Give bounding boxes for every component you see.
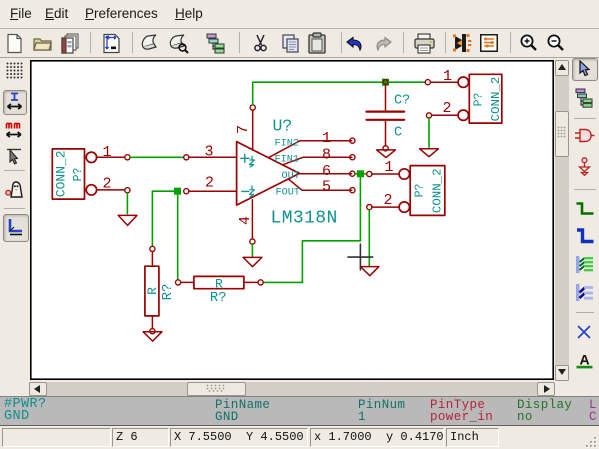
op-amp minus squiggle <box>249 186 254 197</box>
page settings icon <box>101 33 122 54</box>
zoom out icon <box>545 33 566 54</box>
svg-text:1: 1 <box>322 130 331 147</box>
wire: junction left <box>152 190 177 192</box>
message panel <box>0 396 599 426</box>
units mm icon <box>5 122 23 139</box>
svg-text:OUT: OUT <box>282 171 300 182</box>
print icon <box>413 33 436 54</box>
zoom in icon <box>518 33 539 54</box>
hierarchy sheets icon <box>575 88 595 108</box>
connector P1 (CONN_2, left) body <box>52 149 124 199</box>
svg-text:C: C <box>394 125 402 140</box>
open folder icon <box>32 33 53 54</box>
junction on op-amp pin2 net <box>174 188 181 195</box>
svg-text:2: 2 <box>205 175 214 192</box>
connector P2 pin-end circle (pin 1) <box>425 80 430 85</box>
wire: output node down <box>359 178 361 241</box>
ground symbol under resistor R1 <box>143 332 162 341</box>
hidden pins icon <box>5 181 24 199</box>
ground symbol under P2 pin2 <box>420 149 439 157</box>
svg-text:2: 2 <box>442 100 451 117</box>
menu bar <box>0 0 599 29</box>
orthogonal mode button (pressed) <box>3 214 29 242</box>
svg-text:FIN1: FIN1 <box>275 154 299 165</box>
add component tool icon <box>574 127 595 144</box>
ground symbol under op-amp pin 4 <box>243 257 262 266</box>
schematic canvas <box>30 60 554 380</box>
cvpcb icon <box>452 32 474 54</box>
op-amp pin 2 <box>189 190 237 192</box>
ground symbol under P1 pin2 <box>118 215 137 225</box>
resistor R1 (vertical) <box>145 246 159 334</box>
svg-text:2: 2 <box>383 192 392 209</box>
op-amp pin 5 (FOUT) <box>288 179 351 190</box>
op-amp pin 1 (FIN2) <box>269 141 352 158</box>
svg-text:P?: P? <box>473 93 486 107</box>
connector P1 pin-end circles <box>125 155 130 193</box>
wire: down to resistor R1 top <box>151 191 153 246</box>
copy icon <box>279 33 302 54</box>
svg-text:R?: R? <box>160 284 176 301</box>
op-amp pin 7 (V+) <box>252 110 254 150</box>
top toolbar <box>0 29 599 58</box>
svg-text:R: R <box>145 287 160 295</box>
add wire tool icon <box>575 202 595 216</box>
svg-text:R?: R? <box>210 290 227 306</box>
add bus tool icon <box>575 228 595 245</box>
svg-text:LM318N: LM318N <box>271 208 338 228</box>
wire: op-amp pin4 to ground <box>251 244 253 256</box>
connector P2 pin-end circle (pin 2) <box>426 113 431 118</box>
op-amp pin 4 (V-) <box>251 200 253 239</box>
wire: feedback left <box>302 240 360 242</box>
wire: P1 pin1 to op-amp pin3 <box>130 156 183 158</box>
svg-text:C?: C? <box>394 93 410 108</box>
op-amp plus input marker <box>241 154 249 162</box>
op-amp minus input marker <box>242 190 249 192</box>
op-amp plus squiggle <box>249 156 254 167</box>
svg-text:8: 8 <box>322 147 331 164</box>
resistor R2 (horizontal) <box>176 276 264 288</box>
svg-text:2: 2 <box>102 175 111 192</box>
wire: P3 pin2 down to ground <box>368 210 370 266</box>
svg-text:P?: P? <box>414 184 427 198</box>
undo icon <box>345 36 364 51</box>
cut icon <box>250 33 271 54</box>
svg-text:7: 7 <box>235 125 252 134</box>
wire: output node stub <box>355 173 366 175</box>
wire: junction down to resistor R2 left <box>177 195 179 280</box>
wire: P1 pin2 down to ground <box>126 193 128 214</box>
svg-text:CONN_2: CONN_2 <box>53 150 68 197</box>
add text tool icon <box>576 352 593 369</box>
units inches button (pressed) <box>3 90 27 115</box>
hierarchy navigation icon <box>205 33 229 54</box>
right toolbar <box>0 0 599 1</box>
capacitor C1 top pin-end circle <box>383 80 388 85</box>
left toolbar <box>0 0 599 1</box>
grid toggle icon <box>6 62 23 79</box>
svg-text:FOUT: FOUT <box>276 188 300 199</box>
redo icon (disabled) <box>374 36 393 51</box>
connector P3 pin-end circles <box>367 171 372 209</box>
junction at op-amp output node <box>357 170 364 177</box>
vertical scrollbar <box>555 60 569 381</box>
svg-text:CONN_2: CONN_2 <box>431 168 445 213</box>
svg-text:1: 1 <box>443 68 452 85</box>
junction at capacitor C1 top <box>382 79 389 86</box>
new file icon <box>4 33 25 54</box>
netlist icon <box>478 32 500 54</box>
status bar <box>0 426 599 449</box>
schematic cursor crosshair <box>348 244 373 270</box>
cursor shape icon <box>6 148 22 166</box>
select tool button (pressed) <box>572 58 598 81</box>
horizontal scrollbar <box>29 382 554 396</box>
svg-text:4: 4 <box>237 216 254 225</box>
op-amp pin 3 <box>189 156 237 158</box>
svg-text:A: A <box>579 352 589 368</box>
op-amp U1 triangle <box>237 142 300 206</box>
svg-text:5: 5 <box>322 178 331 195</box>
no-connect flag tool icon <box>577 325 591 339</box>
connector P2 (CONN_2, top right) body <box>431 74 502 123</box>
svg-text:U?: U? <box>273 117 293 136</box>
svg-text:FIN2: FIN2 <box>275 138 299 149</box>
save project icon <box>59 32 82 55</box>
op-amp pin 6 (OUT) <box>299 173 351 175</box>
svg-text:P?: P? <box>72 168 85 182</box>
wire: feedback down <box>301 241 303 283</box>
capacitor C1 <box>367 85 405 151</box>
library editor icon <box>140 34 161 53</box>
wire: feedback to R2 right <box>263 281 302 283</box>
ground symbol under capacitor C1 <box>377 150 396 158</box>
svg-text:CONN_2: CONN_2 <box>489 77 503 122</box>
library browser icon <box>168 34 190 54</box>
wire-to-bus entry tool icon <box>575 255 594 274</box>
svg-text:1: 1 <box>384 159 393 176</box>
bus-to-bus entry tool icon <box>575 283 594 302</box>
add power port tool icon <box>577 157 592 177</box>
ground symbol under P3 pin2 <box>361 267 379 276</box>
op-amp pin 8 (FIN1) <box>283 157 352 165</box>
svg-text:1: 1 <box>102 144 111 161</box>
svg-text:3: 3 <box>204 144 213 161</box>
wire: P2 pin2 down to ground <box>428 118 430 147</box>
wire: op-amp pin7 up and right to capacitor / P2 <box>253 82 425 105</box>
connector P3 (CONN_2, mid right) body <box>372 166 445 216</box>
paste icon <box>306 32 328 55</box>
